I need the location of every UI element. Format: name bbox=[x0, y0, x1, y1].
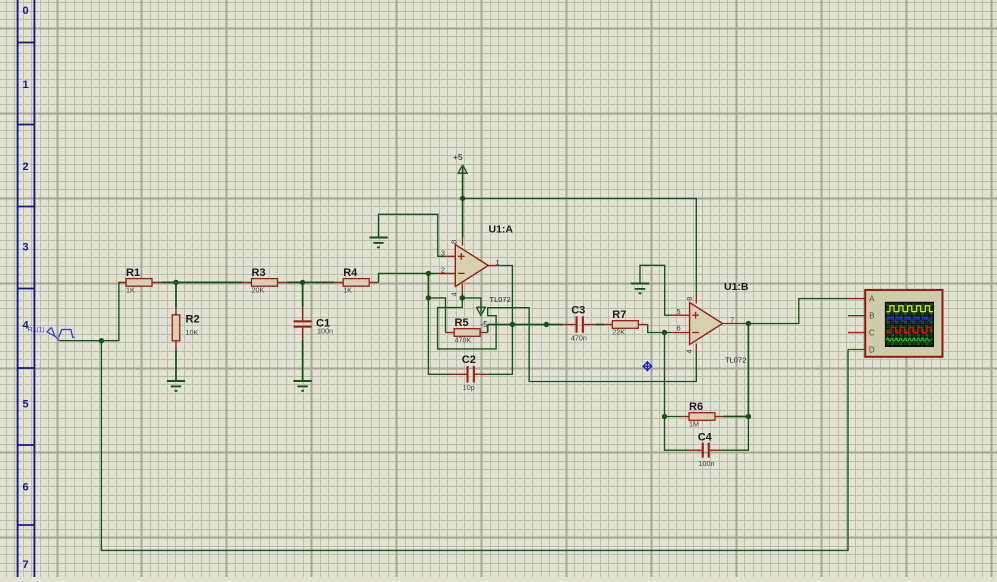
wire R7 to pin6 bbox=[648, 325, 673, 333]
pin number 8 B bbox=[685, 297, 694, 301]
wire source down / bottom rail to scope D bbox=[101, 341, 848, 551]
svg-text:TL072: TL072 bbox=[725, 356, 746, 365]
svg-text:A: A bbox=[869, 295, 875, 304]
node A junction R1-R2-R3 bbox=[173, 280, 178, 285]
wire pin7 junction down bbox=[747, 324, 749, 417]
oscilloscope pin C bbox=[848, 332, 865, 334]
svg-text:1M: 1M bbox=[689, 420, 699, 429]
svg-text:8: 8 bbox=[685, 297, 694, 301]
op-amp U1:A bbox=[437, 237, 498, 294]
pin number 7 bbox=[730, 315, 734, 324]
oscilloscope screen bbox=[885, 302, 934, 347]
svg-text:C2: C2 bbox=[462, 354, 476, 366]
svg-text:3: 3 bbox=[23, 242, 29, 254]
wire output to C3 bbox=[488, 324, 564, 326]
wire pin4 to junction bbox=[461, 294, 463, 298]
power +5 label bbox=[453, 152, 463, 162]
svg-text:10p: 10p bbox=[463, 383, 475, 392]
label U1:A bbox=[489, 224, 514, 236]
wire C3 to R7 bbox=[596, 324, 604, 326]
ground at op-amp B pin5 bbox=[631, 284, 649, 294]
svg-text:470K: 470K bbox=[455, 336, 472, 345]
node pin7 junction bbox=[746, 321, 751, 326]
svg-text:1K: 1K bbox=[343, 286, 352, 295]
svg-text:R2: R2 bbox=[186, 314, 200, 326]
pin number 8 A bbox=[449, 240, 458, 244]
wire output to R5 right bbox=[487, 325, 489, 333]
svg-text:R3: R3 bbox=[252, 267, 266, 279]
ground under R2 bbox=[167, 381, 185, 391]
wire C1 to ground bbox=[302, 340, 304, 381]
svg-text:2: 2 bbox=[441, 266, 445, 275]
node pin6 junction bbox=[662, 330, 667, 335]
svg-text:22K: 22K bbox=[612, 328, 625, 337]
generator probe label R1(1) bbox=[28, 327, 45, 334]
svg-text:100n: 100n bbox=[317, 327, 333, 336]
oscilloscope trace D green bbox=[886, 338, 930, 341]
svg-text:470n: 470n bbox=[571, 334, 587, 343]
svg-text:R7: R7 bbox=[612, 309, 626, 321]
power -5 label bbox=[480, 319, 488, 329]
svg-text:C4: C4 bbox=[698, 432, 713, 444]
svg-text:C3: C3 bbox=[571, 305, 585, 317]
svg-text:C: C bbox=[869, 329, 875, 338]
node pin2 feedback junction bbox=[426, 295, 431, 300]
pin number 4 A bbox=[450, 292, 459, 296]
node R6 left junction bbox=[662, 414, 667, 419]
wire pin7 to scope A bbox=[740, 299, 848, 324]
wire ground to pin3 bbox=[379, 214, 445, 256]
node output junction 2 bbox=[544, 322, 549, 327]
wire ground to pin5 bbox=[640, 265, 672, 315]
pin number 4 B bbox=[684, 349, 693, 353]
label TL072 B bbox=[725, 356, 746, 365]
svg-text:TL072: TL072 bbox=[490, 295, 511, 304]
node pin4 junction bbox=[460, 295, 465, 300]
svg-text:4: 4 bbox=[23, 320, 30, 332]
node source junction bbox=[99, 338, 104, 343]
svg-text:6: 6 bbox=[677, 324, 681, 333]
ground under C1 bbox=[293, 381, 311, 391]
wire generator to R1 corner bbox=[60, 282, 121, 340]
pin number 3 bbox=[441, 249, 445, 258]
svg-text:3: 3 bbox=[441, 249, 445, 258]
oscilloscope trace A yellow bbox=[886, 306, 933, 312]
node +5 junction bbox=[460, 196, 465, 201]
wire pin4 to -5 arrow bbox=[462, 298, 481, 313]
power +5 arrow bbox=[458, 165, 467, 199]
svg-text:D: D bbox=[869, 346, 875, 355]
svg-text:U1:A: U1:A bbox=[489, 224, 514, 236]
svg-text:+5: +5 bbox=[453, 152, 463, 162]
wire output U1:A bbox=[488, 266, 512, 375]
svg-text:1K: 1K bbox=[126, 286, 135, 295]
svg-text:U1:B: U1:B bbox=[724, 281, 749, 293]
oscilloscope trace B blue bbox=[886, 317, 933, 322]
svg-text:2: 2 bbox=[23, 161, 29, 173]
capacitor C3 bbox=[563, 305, 596, 343]
oscilloscope channel labels bbox=[869, 295, 875, 355]
pin number 5 bbox=[676, 307, 680, 316]
ruler band bbox=[18, 0, 35, 577]
svg-text:6: 6 bbox=[23, 482, 29, 494]
svg-text:1: 1 bbox=[23, 79, 29, 91]
svg-text:8: 8 bbox=[449, 240, 458, 244]
wire down to C1 bbox=[302, 282, 304, 306]
svg-text:100n: 100n bbox=[699, 459, 715, 468]
node junction R3-C1-R4 bbox=[300, 280, 305, 285]
svg-text:4: 4 bbox=[450, 292, 459, 296]
capacitor C2 bbox=[453, 354, 488, 392]
wire R1 to R3 bbox=[162, 281, 243, 283]
svg-text:B: B bbox=[869, 312, 874, 321]
svg-text:R6: R6 bbox=[689, 401, 703, 413]
oscilloscope pin B bbox=[848, 315, 865, 317]
resistor R6 bbox=[681, 401, 723, 429]
op-amp U1:B bbox=[672, 294, 740, 353]
pin number 6 bbox=[677, 324, 681, 333]
ruler numbers bbox=[23, 5, 30, 571]
node output junction 1 bbox=[510, 322, 515, 327]
capacitor C4 bbox=[689, 432, 723, 469]
oscilloscope pin D bbox=[848, 349, 865, 351]
svg-text:0: 0 bbox=[23, 5, 29, 17]
capacitor C1 bbox=[294, 307, 334, 340]
oscilloscope pin A bbox=[848, 298, 865, 300]
svg-text:5: 5 bbox=[676, 307, 680, 316]
svg-text:20K: 20K bbox=[252, 286, 265, 295]
pin number 1 bbox=[495, 258, 499, 267]
wire to C4 left bbox=[665, 417, 689, 451]
oscilloscope trace C red bbox=[886, 328, 931, 333]
svg-text:R5: R5 bbox=[455, 317, 469, 329]
svg-text:10K: 10K bbox=[186, 328, 199, 337]
svg-text:4: 4 bbox=[684, 349, 693, 353]
wire junction to C2 left bbox=[428, 298, 452, 374]
power -5 arrow bbox=[476, 307, 485, 315]
wire R3 to R4 bbox=[287, 281, 334, 283]
wire pin6 to R6 bbox=[665, 333, 682, 417]
wire junction to R5 left bbox=[428, 298, 445, 333]
svg-text:7: 7 bbox=[730, 315, 734, 324]
label TL072 A bbox=[490, 295, 511, 304]
pin number 2 bbox=[441, 266, 445, 275]
svg-text:R1: R1 bbox=[126, 267, 140, 279]
wire R2 to ground bbox=[175, 349, 177, 381]
svg-text:7: 7 bbox=[23, 559, 29, 571]
wire R4 to op-amp pin2 bbox=[379, 273, 438, 282]
origin marker bbox=[643, 361, 652, 371]
label U1:B bbox=[724, 281, 749, 293]
node R6 right junction bbox=[746, 414, 751, 419]
svg-text:5: 5 bbox=[23, 399, 29, 411]
node junction pin2 bbox=[426, 271, 431, 276]
resistor R4 bbox=[334, 267, 379, 295]
wire C4 right up bbox=[723, 417, 749, 451]
resistor R5 bbox=[446, 317, 488, 345]
resistor R3 bbox=[243, 267, 287, 295]
resistor R7 bbox=[604, 309, 648, 337]
ground at op-amp A pin3 bbox=[369, 238, 387, 248]
resistor R2 bbox=[172, 308, 199, 350]
wire V- rail U1:A pin4 to U1:B pin4 bbox=[438, 298, 697, 382]
wire R6 right bbox=[723, 416, 748, 418]
svg-text:R1(1): R1(1) bbox=[28, 327, 45, 334]
wire pin2 down bbox=[427, 273, 429, 298]
svg-text:R4: R4 bbox=[343, 267, 358, 279]
generator pulse icon bbox=[59, 330, 75, 338]
oscilloscope body bbox=[865, 290, 942, 357]
wire +5 rail to U1:B pin8 bbox=[463, 198, 697, 293]
wire +5 to pin8 bbox=[462, 198, 464, 237]
resistor R1 bbox=[119, 267, 162, 295]
generator arrow bbox=[47, 327, 60, 340]
wire down to R2 bbox=[175, 282, 177, 307]
